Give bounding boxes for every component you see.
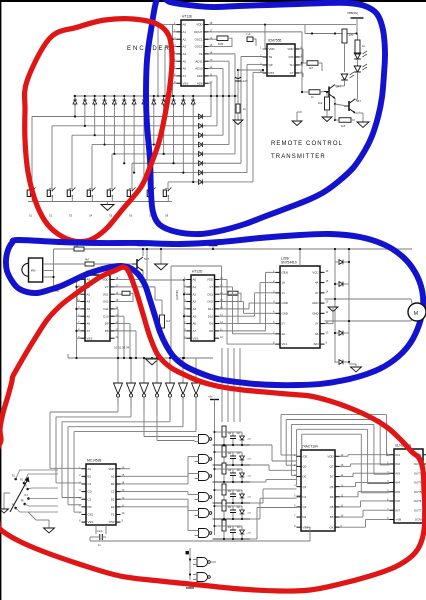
svg-text:+1B: +1B bbox=[247, 497, 251, 499]
svg-text:+1B: +1B bbox=[247, 513, 251, 515]
svg-text:/OE: /OE bbox=[303, 454, 308, 458]
svg-text:A1: A1 bbox=[88, 467, 92, 471]
svg-text:OS1: OS1 bbox=[207, 292, 213, 296]
svg-text:L293/: L293/ bbox=[281, 257, 289, 261]
svg-text:B2: B2 bbox=[111, 482, 115, 486]
svg-text:Cext: Cext bbox=[97, 529, 103, 533]
svg-text:OSC2: OSC2 bbox=[195, 45, 203, 49]
svg-text:S6: S6 bbox=[129, 214, 133, 218]
svg-text:IRM: IRM bbox=[31, 270, 35, 273]
svg-text:GND: GND bbox=[312, 311, 318, 315]
svg-text:D2: D2 bbox=[303, 515, 307, 519]
svg-text:CK: CK bbox=[329, 525, 333, 529]
svg-text:VSS: VSS bbox=[87, 336, 93, 340]
svg-text:VDD: VDD bbox=[269, 47, 275, 51]
svg-text:CT: CT bbox=[290, 71, 294, 75]
svg-text:1k2: 1k2 bbox=[318, 101, 323, 105]
svg-text:S4: S4 bbox=[89, 214, 93, 218]
svg-text:D2: D2 bbox=[111, 497, 115, 501]
svg-text:PD: PD bbox=[88, 505, 92, 509]
svg-text:S5: S5 bbox=[109, 214, 113, 218]
svg-text:A2: A2 bbox=[87, 292, 91, 296]
svg-text:GND: GND bbox=[282, 311, 288, 315]
svg-text:C2: C2 bbox=[88, 497, 92, 501]
svg-text:A1: A1 bbox=[193, 285, 197, 289]
svg-text:VDD: VDD bbox=[108, 467, 114, 471]
svg-text:VSS: VSS bbox=[88, 520, 94, 524]
svg-text:47R: 47R bbox=[349, 33, 354, 37]
svg-text:QP: QP bbox=[269, 63, 273, 67]
svg-text:A5: A5 bbox=[183, 59, 187, 63]
svg-text:1k5: 1k5 bbox=[341, 124, 346, 128]
svg-text:OSC1: OSC1 bbox=[195, 37, 203, 41]
svg-text:547: 547 bbox=[336, 85, 341, 89]
svg-text:VC1: VC1 bbox=[282, 342, 288, 346]
svg-text:A6: A6 bbox=[87, 322, 91, 326]
svg-text:+VB: +VB bbox=[396, 518, 402, 522]
svg-text:A3: A3 bbox=[193, 300, 197, 304]
svg-text:D8: D8 bbox=[105, 329, 109, 333]
svg-text:VDD: VDD bbox=[196, 23, 202, 27]
svg-text:VSS: VSS bbox=[183, 81, 189, 85]
svg-text:GND: GND bbox=[282, 301, 288, 305]
svg-text:Q5: Q5 bbox=[330, 505, 334, 509]
svg-text:A7: A7 bbox=[193, 329, 197, 333]
svg-text:D1: D1 bbox=[303, 495, 307, 499]
svg-text:OUT5: OUT5 bbox=[414, 490, 422, 494]
svg-text:D7: D7 bbox=[330, 475, 334, 479]
svg-text:74ACT164: 74ACT164 bbox=[302, 445, 318, 449]
svg-text:IN1: IN1 bbox=[396, 453, 401, 457]
svg-text:S2: S2 bbox=[49, 214, 53, 218]
svg-text:D10: D10 bbox=[208, 314, 214, 318]
svg-text:OUT7: OUT7 bbox=[414, 508, 422, 512]
svg-text:HT12E: HT12E bbox=[182, 15, 193, 19]
svg-text:1Y: 1Y bbox=[282, 291, 286, 295]
svg-text:+5v: +5v bbox=[208, 395, 213, 399]
svg-text:+1B: +1B bbox=[247, 439, 251, 441]
svg-text:4Y: 4Y bbox=[315, 291, 319, 295]
svg-text:DCM: DCM bbox=[415, 518, 422, 522]
svg-text:/2EN: /2EN bbox=[282, 270, 288, 274]
svg-text:AD11: AD11 bbox=[195, 59, 202, 63]
svg-text:E2: E2 bbox=[111, 505, 115, 509]
svg-text:RST: RST bbox=[269, 71, 275, 75]
svg-text:OS2: OS2 bbox=[207, 300, 213, 304]
svg-text:S1: S1 bbox=[29, 214, 33, 218]
svg-text:IN6: IN6 bbox=[396, 499, 401, 503]
svg-text:3Y: 3Y bbox=[315, 322, 319, 326]
svg-text:S3: S3 bbox=[69, 214, 73, 218]
svg-text:ICM7555: ICM7555 bbox=[268, 39, 282, 43]
svg-text:VT: VT bbox=[209, 285, 213, 289]
svg-text:REMOTE CONTROL: REMOTE CONTROL bbox=[271, 141, 343, 147]
svg-text:M: M bbox=[414, 311, 418, 317]
svg-text:A0: A0 bbox=[183, 23, 187, 27]
svg-text:1M2: 1M2 bbox=[218, 42, 224, 46]
svg-text:+4u7: +4u7 bbox=[241, 79, 247, 83]
svg-text:A5: A5 bbox=[87, 314, 91, 318]
svg-text:OS2: OS2 bbox=[103, 300, 109, 304]
svg-text:A7: A7 bbox=[87, 329, 91, 333]
svg-text:AD8: AD8 bbox=[197, 81, 203, 85]
svg-text:A3: A3 bbox=[87, 300, 91, 304]
svg-text:A2: A2 bbox=[111, 474, 115, 478]
svg-text:D5: D5 bbox=[330, 515, 334, 519]
svg-text:TE: TE bbox=[199, 52, 203, 56]
svg-text:A0: A0 bbox=[193, 278, 197, 282]
svg-text:D6: D6 bbox=[330, 495, 334, 499]
svg-text:TE: TE bbox=[269, 55, 273, 59]
svg-text:7+3: 7+3 bbox=[246, 33, 251, 36]
svg-text:AD9: AD9 bbox=[197, 74, 203, 78]
svg-text:+1B: +1B bbox=[247, 476, 251, 478]
svg-text:A6: A6 bbox=[183, 67, 187, 71]
svg-text:F1: F1 bbox=[111, 513, 115, 517]
svg-text:Q2: Q2 bbox=[303, 505, 307, 509]
svg-text:AD10: AD10 bbox=[195, 67, 203, 71]
svg-text:A4: A4 bbox=[183, 52, 187, 56]
svg-text:2A: 2A bbox=[282, 332, 286, 336]
svg-text:A3: A3 bbox=[183, 45, 187, 49]
svg-text:/EN: /EN bbox=[314, 342, 319, 346]
svg-text:VDD: VDD bbox=[207, 278, 213, 282]
svg-text:TH: TH bbox=[290, 63, 294, 67]
svg-text:4A: 4A bbox=[315, 281, 319, 285]
svg-text:TRANSMITTER: TRANSMITTER bbox=[271, 154, 326, 160]
svg-text:VSS: VSS bbox=[193, 336, 199, 340]
svg-text:HT12D: HT12D bbox=[192, 270, 203, 274]
svg-text:557: 557 bbox=[356, 99, 361, 103]
svg-text:VBB(9v): VBB(9v) bbox=[347, 11, 358, 15]
svg-text:(H)4580: (H)4580 bbox=[175, 290, 179, 300]
svg-text:OS1: OS1 bbox=[103, 292, 109, 296]
svg-text:A2: A2 bbox=[183, 37, 187, 41]
svg-text:C1: C1 bbox=[88, 482, 92, 486]
svg-text:A6: A6 bbox=[193, 322, 197, 326]
svg-text:+1B: +1B bbox=[247, 459, 251, 461]
svg-text:A4: A4 bbox=[193, 307, 197, 311]
svg-text:2Y: 2Y bbox=[282, 322, 286, 326]
svg-text:B1: B1 bbox=[88, 474, 92, 478]
svg-text:01 02 03 04: 01 02 03 04 bbox=[114, 346, 130, 350]
svg-text:+1B: +1B bbox=[247, 533, 251, 535]
svg-text:GND: GND bbox=[312, 301, 318, 305]
svg-text:3A: 3A bbox=[315, 332, 319, 336]
svg-text:1A: 1A bbox=[282, 281, 286, 285]
svg-text:S8: S8 bbox=[165, 214, 169, 218]
svg-text:DOUT: DOUT bbox=[194, 30, 202, 34]
svg-text:VDD: VDD bbox=[287, 47, 293, 51]
svg-text:SN754410: SN754410 bbox=[281, 261, 297, 265]
svg-text:D11: D11 bbox=[103, 307, 108, 311]
svg-text:CD: CD bbox=[88, 490, 92, 494]
svg-text:OS1: OS1 bbox=[88, 513, 94, 517]
svg-text:C2: C2 bbox=[111, 490, 115, 494]
svg-text:IN7: IN7 bbox=[396, 508, 401, 512]
svg-text:DIS: DIS bbox=[289, 55, 294, 59]
svg-text:A5: A5 bbox=[193, 314, 197, 318]
svg-text:IN2: IN2 bbox=[396, 462, 401, 466]
svg-text:D9: D9 bbox=[105, 322, 109, 326]
svg-text:OS2: OS2 bbox=[109, 520, 115, 524]
svg-text:VDD: VDD bbox=[327, 454, 333, 458]
svg-text:A4: A4 bbox=[87, 307, 91, 311]
svg-text:VT: VT bbox=[105, 285, 109, 289]
svg-text:A7: A7 bbox=[183, 74, 187, 78]
svg-text:Q0: Q0 bbox=[303, 465, 307, 469]
svg-text:D9: D9 bbox=[209, 322, 213, 326]
svg-text:A1: A1 bbox=[183, 30, 187, 34]
svg-text:Q6: Q6 bbox=[330, 485, 334, 489]
svg-text:4u7: 4u7 bbox=[166, 319, 171, 323]
svg-text:MC14538: MC14538 bbox=[87, 459, 101, 463]
svg-text:IN5: IN5 bbox=[396, 490, 401, 494]
svg-text:4k7: 4k7 bbox=[309, 66, 314, 70]
svg-text:OUT6: OUT6 bbox=[414, 499, 422, 503]
svg-text:Q1: Q1 bbox=[303, 485, 307, 489]
svg-text:IN3: IN3 bbox=[396, 471, 401, 475]
svg-text:IN4: IN4 bbox=[396, 481, 401, 485]
svg-text:OUT4: OUT4 bbox=[414, 481, 422, 485]
svg-text:A2: A2 bbox=[193, 292, 197, 296]
svg-text:Q7: Q7 bbox=[330, 465, 334, 469]
svg-text:D11: D11 bbox=[208, 307, 213, 311]
svg-text:VCC: VCC bbox=[312, 270, 318, 274]
svg-text:4k7: 4k7 bbox=[85, 258, 90, 262]
svg-text:D10: D10 bbox=[103, 314, 109, 318]
svg-text:D0: D0 bbox=[303, 475, 307, 479]
svg-text:D8: D8 bbox=[209, 329, 213, 333]
